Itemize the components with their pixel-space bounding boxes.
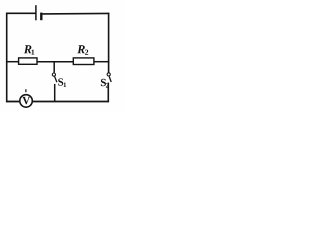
wire: top-left horizontal (left rail to battery) <box>6 12 36 14</box>
wire: middle horizontal centre (R1 to R2, with S1 tap) <box>37 61 73 63</box>
wire: top-right horizontal (battery to right rail) <box>42 12 109 15</box>
wire: bottom horizontal left (corner to voltmeter) <box>6 101 19 103</box>
wire: middle horizontal right (R2 to right rail) <box>94 61 110 63</box>
wire: S1 branch lower (S1 down to bottom wire) <box>54 84 56 102</box>
wire: right rail upper vertical (top corner down to S2) <box>108 13 110 73</box>
label S2 <box>101 79 109 88</box>
label S1 <box>58 78 66 87</box>
switch S1 (pivot circle + open blade) <box>52 73 57 82</box>
wire: left rail vertical <box>6 13 8 103</box>
voltmeter (circle, top terminal tick, letter V) <box>20 89 33 107</box>
resistor R2 (box) <box>73 58 94 65</box>
label R2 <box>77 45 88 54</box>
wire: middle horizontal left (left rail to R1) <box>6 61 19 63</box>
resistor R1 (box) <box>19 58 37 64</box>
wire: bottom horizontal right (voltmeter to corner) <box>33 101 109 103</box>
wire: right rail lower vertical (S2 down to bottom corner) <box>107 83 109 103</box>
battery cell (long plate + short thick plate) <box>36 5 41 20</box>
wire: S1 branch upper (tap junction down to S1 pivot) <box>53 62 55 73</box>
switch S2 (pivot circle + open blade) <box>107 73 111 82</box>
label R1 <box>24 45 35 54</box>
